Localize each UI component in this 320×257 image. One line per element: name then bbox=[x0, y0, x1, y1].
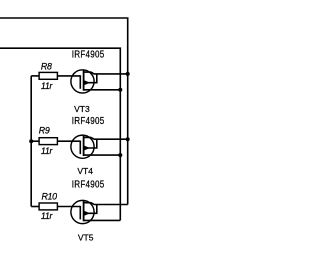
svg-text:IRF4905: IRF4905 bbox=[72, 115, 105, 126]
svg-text:R9: R9 bbox=[39, 126, 50, 136]
svg-text:VT5: VT5 bbox=[78, 233, 94, 243]
svg-text:R10: R10 bbox=[42, 191, 58, 201]
svg-text:IRF4905: IRF4905 bbox=[72, 49, 105, 60]
svg-text:11r: 11r bbox=[41, 146, 54, 156]
svg-text:11r: 11r bbox=[41, 81, 54, 91]
svg-text:IRF4905: IRF4905 bbox=[72, 179, 105, 190]
svg-text:11r: 11r bbox=[41, 211, 54, 221]
svg-text:VT4: VT4 bbox=[77, 166, 93, 176]
svg-text:R8: R8 bbox=[41, 61, 52, 71]
svg-text:VT3: VT3 bbox=[74, 104, 90, 114]
